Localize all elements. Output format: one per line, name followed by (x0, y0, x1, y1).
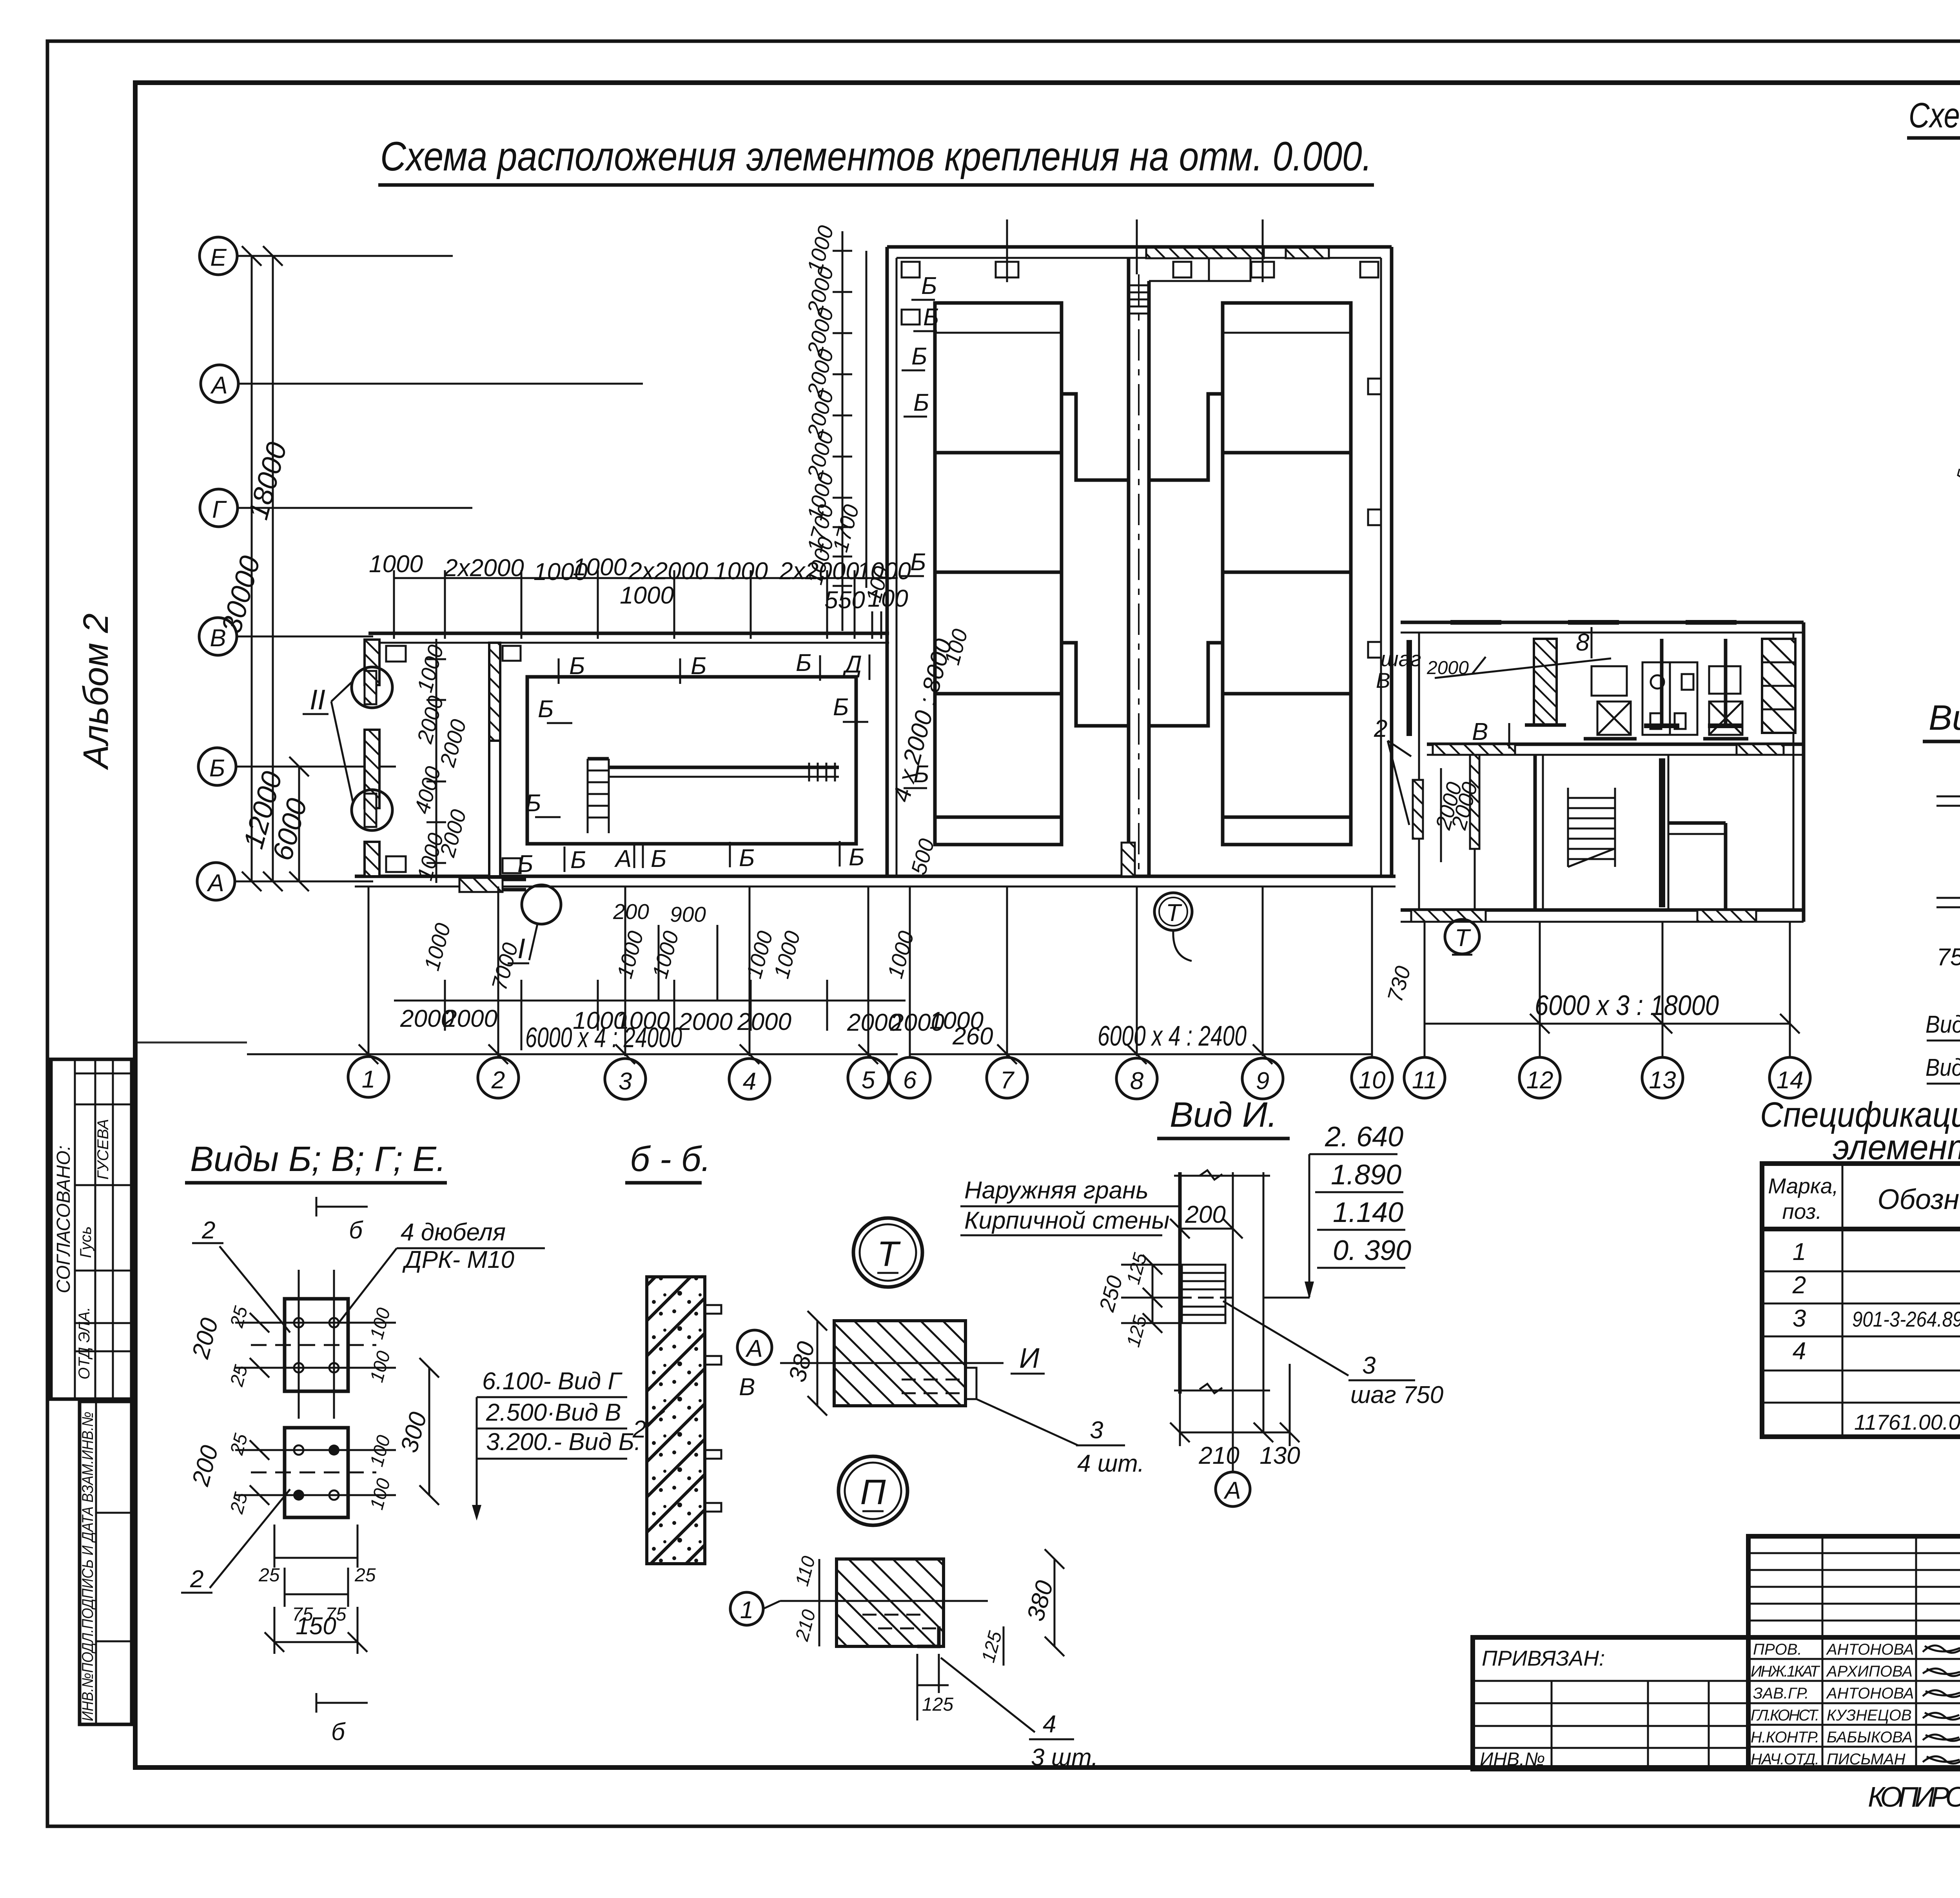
svg-text:2000: 2000 (678, 1008, 733, 1035)
svg-text:Схема расположения элементов к: Схема расположения элементов крепления н… (380, 134, 1372, 179)
svg-text:2x2000: 2x2000 (444, 555, 524, 582)
svg-text:ЗАВ.ГР.: ЗАВ.ГР. (1753, 1685, 1809, 1702)
right chamber stack (1223, 303, 1351, 845)
spec row 6 (1854, 1410, 1960, 1434)
stamp columns left part (1748, 1536, 1960, 1769)
svg-text:130: 130 (1259, 1442, 1300, 1469)
svg-text:5: 5 (862, 1067, 875, 1094)
svg-text:Б: Б (923, 304, 939, 331)
svg-text:Б: Б (517, 850, 533, 877)
svg-text:Т: Т (1166, 899, 1182, 926)
spec row 4 (1793, 1338, 1960, 1365)
svg-text:13: 13 (1649, 1067, 1676, 1094)
album label "Альбом 2" (76, 613, 116, 770)
svg-text:СОГЛАСОВАНО:: СОГЛАСОВАНО: (53, 1146, 74, 1293)
anchor dimension chain left of central hall (802, 223, 866, 631)
svg-text:3: 3 (1362, 1352, 1376, 1379)
svg-text:2: 2 (632, 1416, 646, 1443)
svg-text:ПРИВЯЗАН:: ПРИВЯЗАН: (1482, 1646, 1605, 1670)
svg-text:25: 25 (258, 1565, 280, 1586)
spec table headers (1768, 1172, 1960, 1224)
svg-text:Кирпичной стены: Кирпичной стены (964, 1207, 1169, 1234)
detail II brick pier (730, 1549, 1098, 1771)
dims below plate Д (1926, 912, 1960, 1091)
svg-text:2.500·Вид В: 2.500·Вид В (486, 1399, 621, 1426)
svg-text:150: 150 (296, 1613, 336, 1640)
svg-text:1: 1 (362, 1066, 375, 1093)
section marks Б inside hall (900, 272, 939, 788)
svg-text:10: 10 (1359, 1067, 1386, 1094)
inner room of left block (527, 677, 856, 844)
left vertical dimension lines (216, 246, 313, 891)
svg-text:Альбом 2: Альбом 2 (76, 613, 116, 770)
svg-text:3: 3 (619, 1068, 632, 1095)
right wing top wall on axis B (1401, 622, 1804, 633)
svg-text:В: В (1472, 718, 1488, 745)
svg-text:II: II (310, 684, 325, 716)
svg-text:2: 2 (1374, 715, 1387, 742)
svg-text:ПРОВ.: ПРОВ. (1753, 1641, 1802, 1658)
svg-text:9: 9 (1256, 1068, 1269, 1095)
section circle I at bottom wall (459, 878, 561, 964)
label II with leaders (303, 681, 353, 801)
svg-text:В: В (739, 1374, 755, 1401)
bottom dims of plates (258, 1525, 376, 1654)
svg-text:4: 4 (1793, 1338, 1806, 1365)
dimension 260 between axes 5-6 (952, 1023, 993, 1050)
grid axis E (200, 237, 453, 275)
svg-text:Т: Т (1455, 925, 1471, 952)
grid axis Б (198, 748, 396, 785)
corridor walls (1122, 258, 1149, 876)
svg-text:4: 4 (743, 1068, 756, 1095)
attachment box ПРИВЯЗАН (1473, 1637, 1748, 1770)
axis 8 dash-dot centreline (1138, 274, 1140, 876)
axis witness lines to circles (368, 886, 1790, 1056)
svg-text:НАЧ.ОТД.: НАЧ.ОТД. (1751, 1751, 1819, 1768)
dimension chain above axis B (369, 551, 911, 639)
svg-text:550: 550 (824, 587, 865, 614)
svg-text:12: 12 (1526, 1067, 1553, 1094)
svg-text:Б: Б (921, 272, 937, 299)
svg-text:3 шт.: 3 шт. (1031, 1744, 1098, 1771)
svg-text:1: 1 (1793, 1238, 1806, 1265)
elevation labels Вид Г В Б (472, 1368, 641, 1521)
bottom dims of Вид И (1170, 1364, 1300, 1506)
svg-text:Б: Б (910, 549, 926, 576)
svg-text:2000: 2000 (443, 1005, 497, 1032)
plate band in Вид И (1176, 1265, 1233, 1323)
plate bar Д (1936, 894, 1960, 912)
footer captions (1868, 1777, 1960, 1830)
svg-text:0. 390: 0. 390 (1333, 1235, 1411, 1266)
svg-text:Б: Б (538, 696, 554, 723)
svg-text:Б: Б (570, 847, 586, 874)
left stamp: agreement block (51, 1059, 132, 1399)
svg-text:1: 1 (740, 1597, 753, 1624)
svg-text:900: 900 (670, 902, 706, 926)
axis circles 1-14 (348, 1057, 1810, 1099)
svg-text:Б: Б (796, 649, 811, 676)
section mark б bottom (316, 1693, 368, 1746)
label 4 дюбеля ДРК-М10 (338, 1219, 545, 1324)
svg-text:2x2000: 2x2000 (628, 558, 708, 585)
spec table heading (1760, 1095, 1960, 1167)
svg-text:Б: Б (525, 790, 541, 817)
spec table grid (1762, 1164, 1960, 1437)
svg-text:6000 х 4 : 24000: 6000 х 4 : 24000 (525, 1022, 682, 1053)
detail I brick pier (737, 1311, 1144, 1477)
title Виды А; Д. (1923, 698, 1960, 741)
right wing left wall (1406, 633, 1423, 910)
svg-text:А: А (1223, 1477, 1241, 1504)
leader 2 lower (181, 1489, 290, 1593)
svg-text:4: 4 (1043, 1711, 1056, 1738)
wall verticals of Вид И (1174, 1170, 1270, 1432)
3600 left dimension chains (1953, 249, 1960, 495)
title block outer (1748, 1536, 1960, 1769)
svg-text:ИНВ.№ПОДЛ.ПОДПИСЬ И ДАТА ВЗАМ.: ИНВ.№ПОДЛ.ПОДПИСЬ И ДАТА ВЗАМ.ИНВ.№ (79, 1412, 96, 1721)
total dimension line 6000x4=24000 (135, 1022, 898, 1064)
section circle II upper (352, 667, 392, 708)
svg-text:Вид Д: Вид Д (1926, 1054, 1960, 1081)
svg-text:200: 200 (613, 899, 649, 924)
corridor wall on axis Б of right wing (1427, 744, 1804, 755)
svg-text:1.890: 1.890 (1331, 1159, 1401, 1191)
svg-text:ДРК- М10: ДРК- М10 (402, 1246, 514, 1273)
svg-text:б - б.: б - б. (630, 1140, 711, 1179)
svg-text:Д: Д (842, 651, 862, 678)
svg-text:Б: Б (913, 389, 929, 416)
section circle II lower (352, 790, 392, 830)
svg-text:Марка,: Марка, (1768, 1174, 1838, 1198)
svg-text:В: В (1376, 668, 1390, 692)
svg-text:И: И (1019, 1343, 1040, 1374)
section б-б title (625, 1140, 711, 1183)
dimension 6000x4=2400 axes 6-10 (910, 1021, 1372, 1064)
svg-text:П: П (860, 1473, 886, 1512)
svg-text:Г: Г (212, 496, 227, 523)
inner vertical dimension chain (410, 639, 471, 883)
svg-text:3: 3 (1090, 1417, 1103, 1444)
grid axis Г (200, 489, 472, 527)
svg-text:АРХИПОВА: АРХИПОВА (1826, 1663, 1913, 1680)
section circle T below central hall (1154, 893, 1192, 961)
svg-text:Вид И.: Вид И. (1170, 1095, 1277, 1135)
svg-text:Б: Б (739, 845, 755, 872)
svg-text:Б: Б (691, 653, 706, 680)
grid axis В (199, 618, 373, 655)
svg-text:8: 8 (1576, 629, 1590, 656)
svg-text:Схема расположения элементов к: Схема расположения элементов крепления (1909, 96, 1960, 135)
svg-text:6000 х 3 : 18000: 6000 х 3 : 18000 (1535, 990, 1719, 1021)
title Вид И (1157, 1095, 1290, 1138)
svg-text:125: 125 (922, 1694, 953, 1715)
svg-text:Виды А; Д.: Виды А; Д. (1929, 698, 1960, 738)
svg-text:ИНВ.№: ИНВ.№ (1480, 1749, 1545, 1770)
svg-text:Е: Е (210, 244, 227, 271)
svg-text:2: 2 (491, 1067, 505, 1094)
plate bar A (1936, 792, 1960, 810)
svg-text:25: 25 (354, 1565, 376, 1586)
svg-text:7: 7 (1000, 1067, 1015, 1094)
svg-text:6000 х 4 : 2400: 6000 х 4 : 2400 (1098, 1021, 1247, 1052)
svg-text:Б: Б (569, 653, 585, 680)
svg-text:75: 75 (1937, 944, 1960, 971)
svg-text:ОТД ЭЛА.: ОТД ЭЛА. (76, 1307, 93, 1380)
section circle T below right wing start (1445, 919, 1479, 955)
svg-text:ГЛ.КОНСТ.: ГЛ.КОНСТ. (1751, 1707, 1819, 1724)
sanitary fixtures cluster (1584, 662, 1748, 739)
upper anchor plate Б (187, 1270, 396, 1419)
svg-text:1000: 1000 (620, 582, 674, 609)
svg-text:1000: 1000 (573, 554, 627, 581)
svg-text:Б: Б (911, 343, 927, 370)
svg-text:А: А (745, 1335, 762, 1362)
svg-text:Б: Б (651, 845, 666, 872)
svg-text:901-3-264.89-КЖ.И 70.090: 901-3-264.89-КЖ.И 70.090 (1852, 1307, 1960, 1331)
spec row 3 (1793, 1305, 1960, 1332)
svg-text:А: А (614, 845, 632, 872)
svg-text:Б: Б (209, 755, 225, 782)
svg-text:Гусь: Гусь (77, 1226, 94, 1258)
section mark б top (316, 1197, 368, 1244)
svg-text:11761.00.00.000: 11761.00.00.000 (1854, 1410, 1960, 1434)
svg-text:4 шт.: 4 шт. (1077, 1450, 1144, 1477)
svg-text:АНТОНОВА: АНТОНОВА (1826, 1641, 1914, 1658)
svg-text:ГУСЕВА: ГУСЕВА (94, 1119, 112, 1180)
brick face note (960, 1177, 1180, 1235)
dimension 6000x3=18000 axes 11-14 (1383, 963, 1800, 1033)
svg-text:6: 6 (903, 1067, 917, 1094)
axis tick marks crossing top wall (902, 219, 1378, 282)
svg-text:КОПИРОВАЛ: ЛОГИНОВА: КОПИРОВАЛ: ЛОГИНОВА (1868, 1782, 1960, 1813)
svg-text:шаг: шаг (1381, 647, 1421, 671)
wall on axis B top of left block (368, 633, 889, 643)
svg-text:Н.КОНТР.: Н.КОНТР. (1751, 1729, 1819, 1746)
svg-text:А: А (206, 870, 224, 897)
hatched corner block top right (1762, 639, 1795, 733)
svg-text:Виды Б; В; Г; Е.: Виды Б; В; Г; Е. (190, 1140, 446, 1179)
svg-text:2. 640: 2. 640 (1325, 1121, 1403, 1153)
top centre lobby rectangle (1149, 258, 1250, 281)
upper row I-columns right wing (1644, 639, 1743, 726)
leader 2 upper (192, 1217, 290, 1332)
left stamp: inventory block (79, 1401, 132, 1724)
left dims of Вид И (1094, 1251, 1182, 1349)
detail circle II (838, 1456, 907, 1525)
svg-text:2: 2 (1792, 1272, 1806, 1299)
hatched left wall pieces on axis 1 (365, 640, 406, 876)
stair of right wing (1568, 788, 1615, 867)
svg-text:БАБЫКОВА: БАБЫКОВА (1827, 1729, 1913, 1746)
grid axis A upper (201, 365, 643, 402)
svg-text:ИНЖ.1КАТ: ИНЖ.1КАТ (1751, 1663, 1820, 1680)
personnel rows (1751, 1641, 1960, 1768)
svg-text:КУЗНЕЦОВ: КУЗНЕЦОВ (1827, 1707, 1912, 1724)
svg-text:б: б (349, 1217, 363, 1244)
vertical dimension 4x2000=8000 (861, 564, 973, 877)
svg-text:шаг 750: шаг 750 (1350, 1381, 1443, 1409)
door stubs between chambers and corridor (1062, 394, 1223, 726)
main title 0.000 (378, 134, 1374, 185)
hatched top wall segment (1146, 248, 1329, 258)
dimension rows below axis A wall (394, 899, 984, 1050)
svg-text:6.100- Вид Г: 6.100- Вид Г (482, 1368, 622, 1395)
dim 200 top (1170, 1201, 1243, 1238)
svg-text:14: 14 (1777, 1067, 1804, 1094)
leader шаг 750 (1223, 1301, 1443, 1409)
svg-text:1000: 1000 (714, 558, 768, 585)
svg-text:1.140: 1.140 (1333, 1197, 1403, 1228)
svg-text:200: 200 (1185, 1201, 1225, 1228)
hatched pier column upper left (1525, 639, 1566, 725)
grid axis A lower (197, 863, 373, 900)
stair hatch top of corridor (1129, 285, 1149, 314)
left chamber stack (935, 303, 1062, 845)
svg-text:б: б (331, 1719, 346, 1746)
svg-text:3: 3 (1793, 1305, 1806, 1332)
svg-text:Б: Б (833, 694, 849, 721)
leader labels of right wing (1374, 627, 1611, 862)
detail circle I (853, 1218, 922, 1287)
svg-text:2: 2 (201, 1217, 215, 1244)
svg-text:3.200.- Вид Б.: 3.200.- Вид Б. (486, 1428, 641, 1456)
svg-text:2000: 2000 (737, 1008, 791, 1035)
svg-text:Обозначение: Обозначение (1877, 1184, 1960, 1215)
stair in left block (588, 759, 609, 833)
svg-text:Б: Б (849, 844, 864, 871)
svg-text:Вид А: Вид А (1926, 1011, 1960, 1038)
right wing right wall (1793, 622, 1804, 922)
lower anchor plate B (187, 1428, 396, 1517)
spec row 1 (1793, 1235, 1960, 1273)
wall on axis A bottom of left and central blocks (355, 876, 1396, 886)
corridor wall on axis 2 (489, 643, 521, 876)
central hall outer walls (887, 247, 1392, 876)
title 3.600 (1907, 96, 1960, 178)
svg-text:4 дюбеля: 4 дюбеля (401, 1219, 506, 1246)
svg-text:А: А (210, 372, 227, 399)
svg-text:8: 8 (1130, 1068, 1144, 1095)
section б-б concrete strip (632, 1277, 721, 1564)
svg-text:ПИСЬМАН: ПИСЬМАН (1827, 1751, 1906, 1768)
svg-text:АНТОНОВА: АНТОНОВА (1826, 1685, 1914, 1702)
right wing bottom wall (1401, 910, 1804, 922)
svg-text:Наружняя грань: Наружняя грань (964, 1177, 1149, 1204)
svg-text:Т: Т (877, 1235, 901, 1274)
svg-text:260: 260 (952, 1023, 993, 1050)
svg-text:1000: 1000 (369, 551, 423, 578)
svg-text:11: 11 (1412, 1067, 1437, 1094)
dim 300 right (396, 1358, 439, 1505)
stubs on right outer wall (1368, 379, 1381, 658)
Б section marks near wall B (517, 649, 869, 877)
svg-text:2: 2 (190, 1566, 203, 1593)
corridor rail wall on axis Б (609, 763, 839, 781)
svg-text:поз.: поз. (1782, 1199, 1822, 1224)
partitions lower row (1470, 755, 1726, 910)
elevation marks of Вид И (1263, 1121, 1411, 1299)
spec row 2 (1792, 1272, 1960, 1305)
title Виды Б; В; Г; Е. (185, 1140, 447, 1183)
